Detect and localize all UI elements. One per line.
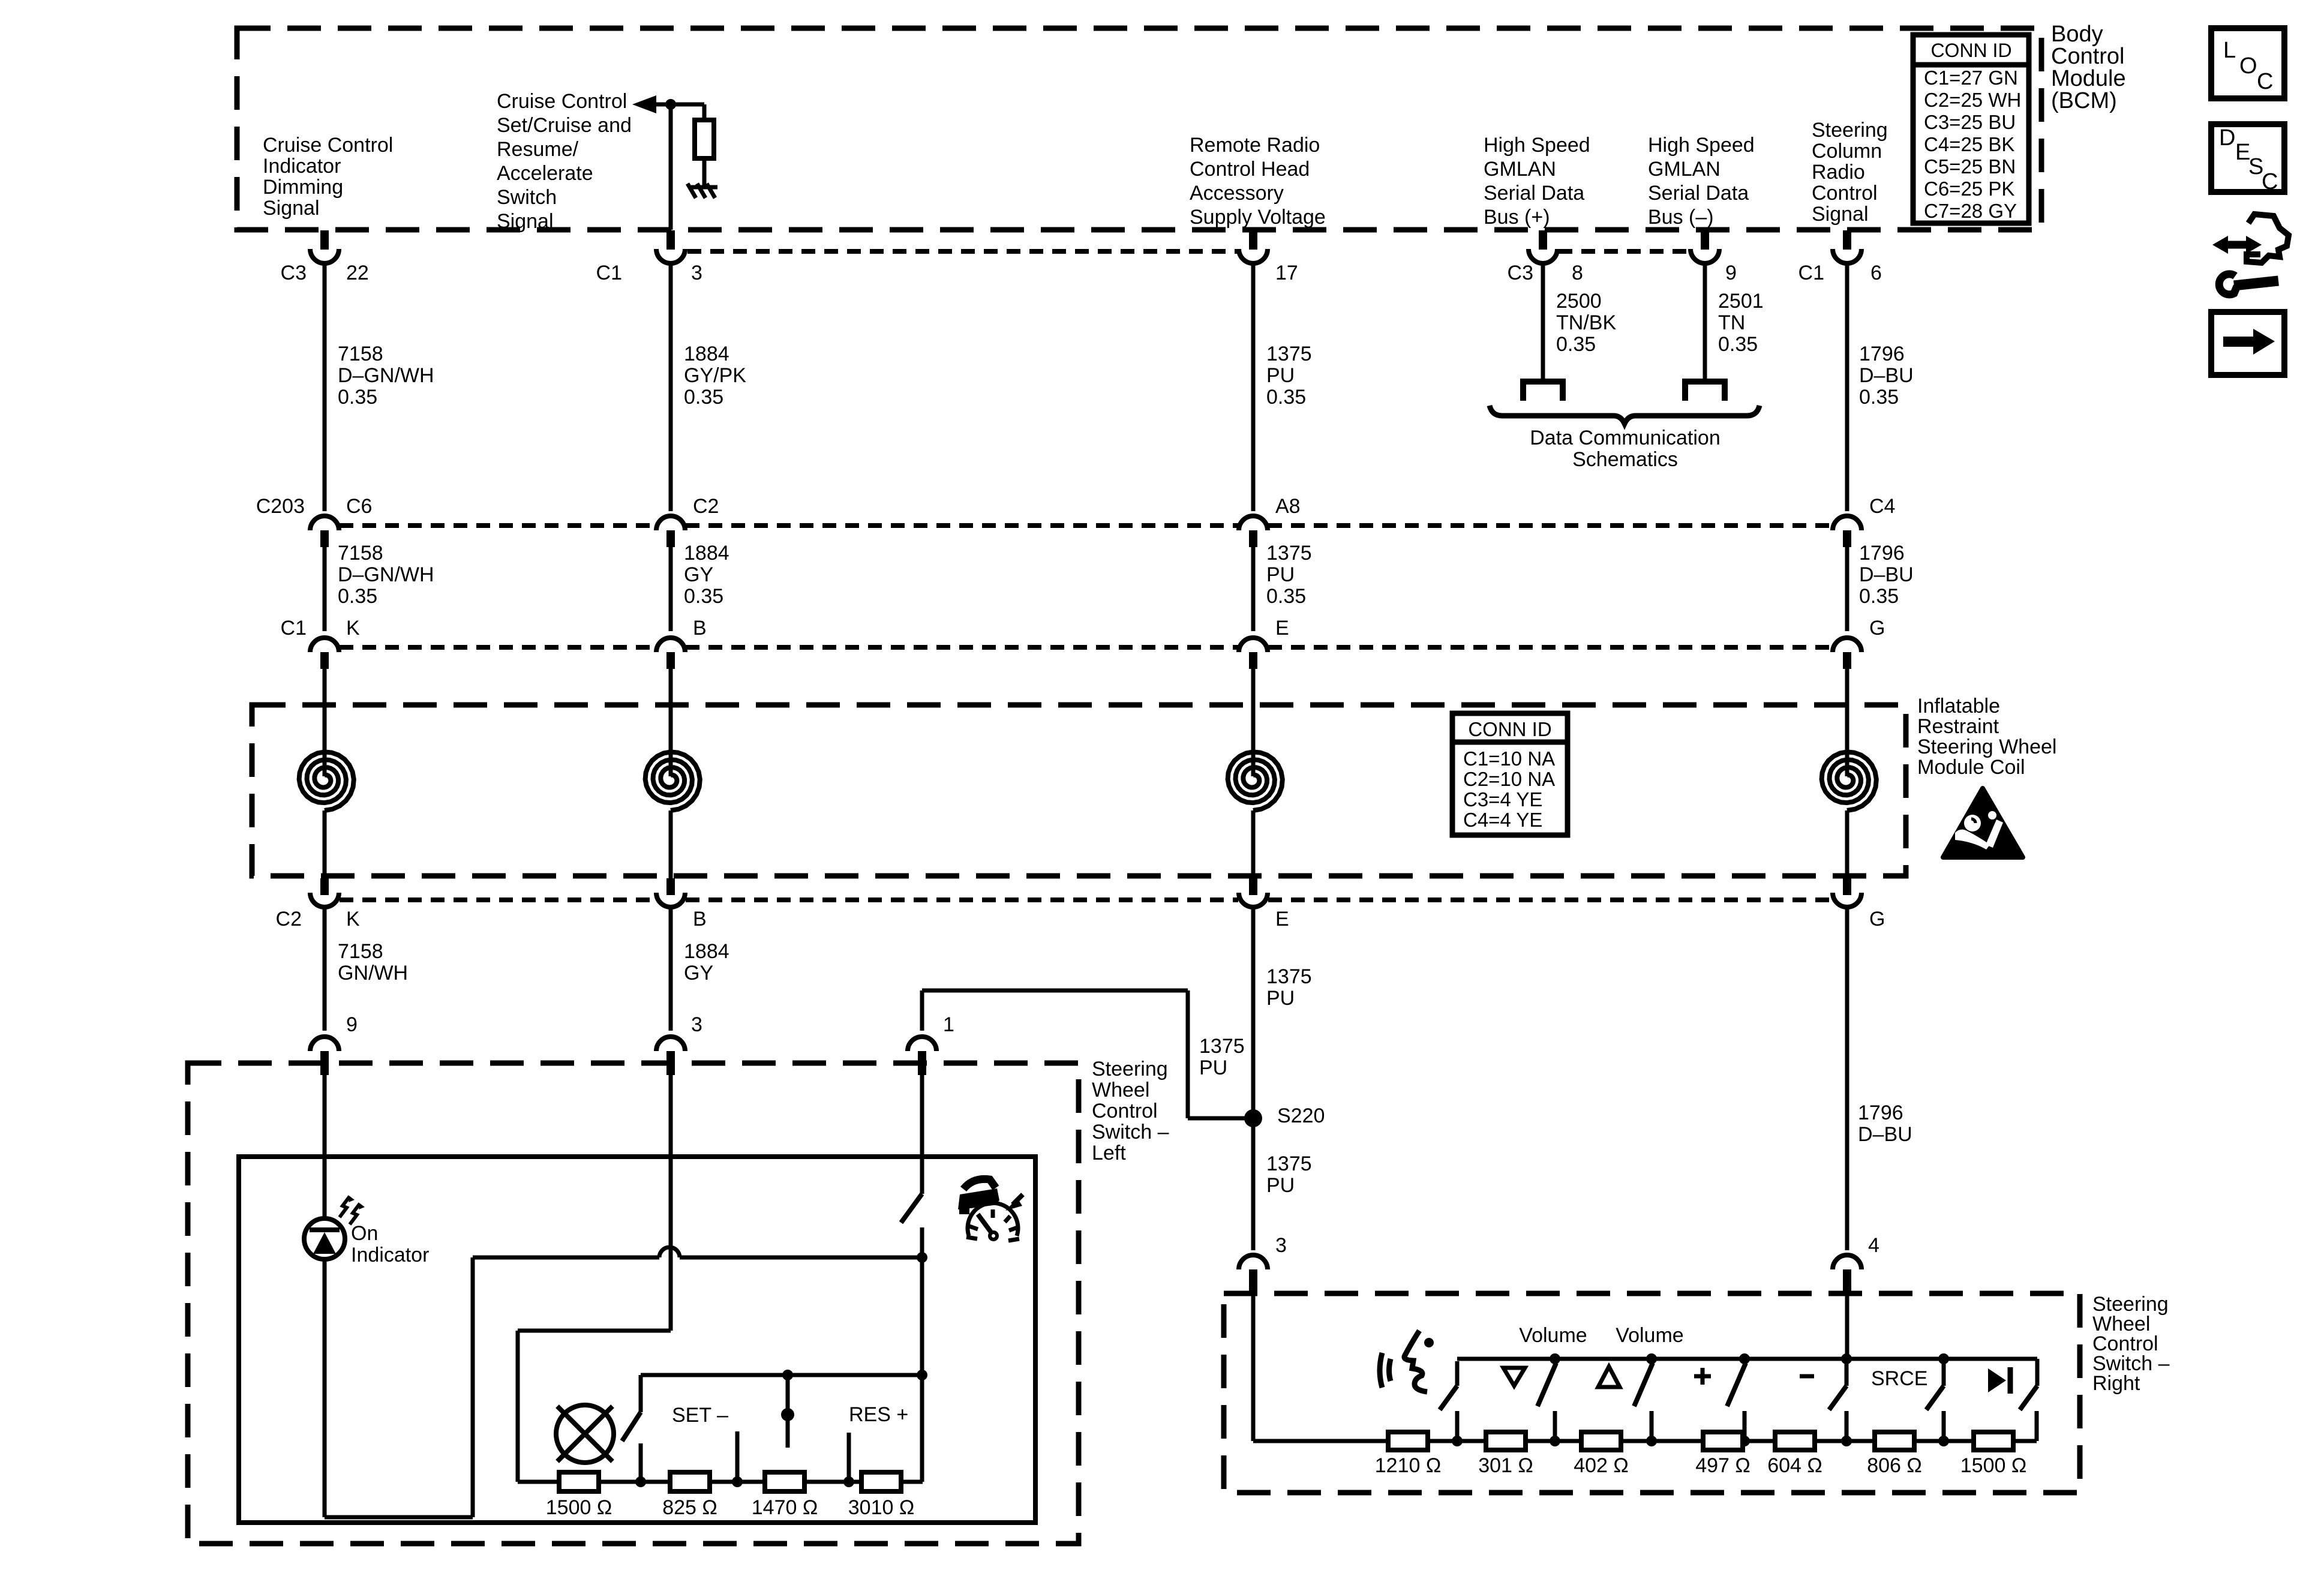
- svg-text:GMLAN: GMLAN: [1484, 158, 1556, 181]
- resistor 1500 ohm: [1974, 1432, 2013, 1450]
- wires row C -> coil box: [323, 669, 327, 751]
- wire W6 segment 1: [1845, 265, 1849, 511]
- svg-text:Accessory: Accessory: [1190, 182, 1284, 205]
- connector row D at x=2089: [1249, 878, 1257, 895]
- svg-text:D–BU: D–BU: [1859, 563, 1914, 586]
- svg-text:Cruise Control: Cruise Control: [263, 134, 393, 157]
- svg-text:D–GN/WH: D–GN/WH: [338, 563, 434, 586]
- svg-text:PU: PU: [1266, 563, 1295, 586]
- svg-text:C4: C4: [1869, 495, 1895, 518]
- svg-text:B: B: [693, 617, 707, 640]
- svg-text:Control Head: Control Head: [1190, 158, 1310, 181]
- svg-text:Signal: Signal: [263, 197, 320, 220]
- long horizontal with hop over W2: [473, 1256, 659, 1260]
- LED arrows: [340, 1196, 350, 1217]
- svg-text:Schematics: Schematics: [1572, 448, 1678, 471]
- svg-text:1470 Ω: 1470 Ω: [752, 1496, 818, 1519]
- svg-text:Switch –: Switch –: [1092, 1121, 1169, 1143]
- Steering Wheel Control Switch - Left dashed box: [188, 1063, 1079, 1544]
- svg-text:0.35: 0.35: [684, 585, 723, 608]
- icon DESC: [2211, 124, 2284, 192]
- svg-text:B: B: [693, 908, 707, 930]
- resistor 3010 ohm: [861, 1472, 901, 1491]
- svg-text:GY/PK: GY/PK: [684, 364, 746, 387]
- svg-text:Control: Control: [2051, 44, 2125, 69]
- connector row D at x=541: [320, 878, 329, 895]
- svg-text:GMLAN: GMLAN: [1648, 158, 1721, 181]
- coil spiral at x=1118: [645, 752, 700, 810]
- connector pin (BCM) at x=2842 (9): [1701, 230, 1709, 250]
- in-line connector row C at x=2089: [1239, 638, 1268, 652]
- svg-text:C2: C2: [276, 908, 302, 930]
- in-line connector C203 at x=1118: [656, 516, 685, 530]
- svg-text:K: K: [346, 908, 360, 930]
- svg-text:1884: 1884: [684, 940, 729, 963]
- svg-text:Indicator: Indicator: [351, 1244, 429, 1266]
- svg-text:3: 3: [1275, 1234, 1287, 1257]
- resistor 825 ohm: [670, 1472, 710, 1491]
- svg-text:D–GN/WH: D–GN/WH: [338, 364, 434, 387]
- coil spiral at x=541: [299, 752, 354, 810]
- connector 9 (left switch): [310, 1037, 339, 1051]
- svg-text:1: 1: [943, 1013, 954, 1036]
- resistor 604 ohm: [1775, 1432, 1815, 1450]
- svg-text:GN/WH: GN/WH: [338, 962, 408, 984]
- svg-text:0.35: 0.35: [1266, 386, 1306, 409]
- svg-text:0.35: 0.35: [1718, 333, 1758, 356]
- connector pin (BCM) at x=2572 (C3/8): [1539, 230, 1547, 250]
- svg-text:17: 17: [1275, 262, 1298, 284]
- svg-text:Control: Control: [1092, 1100, 1158, 1122]
- svg-text:Left: Left: [1092, 1142, 1126, 1164]
- icon vol-down triangle: [1503, 1368, 1525, 1386]
- svg-text:Serial Data: Serial Data: [1484, 182, 1584, 205]
- svg-text:C: C: [2257, 69, 2273, 94]
- svg-text:G: G: [1869, 617, 1885, 640]
- svg-text:S220: S220: [1277, 1104, 1325, 1127]
- switch SRCE: [1938, 1353, 1949, 1364]
- svg-text:High Speed: High Speed: [1648, 134, 1755, 157]
- svg-text:Resume/: Resume/: [497, 138, 579, 161]
- lamp (X circle): [556, 1405, 614, 1463]
- resistor (pull-up) in BCM: [695, 120, 714, 158]
- svg-text:Inflatable: Inflatable: [1917, 695, 2000, 718]
- icon LOC: [2211, 28, 2284, 98]
- icon next track (play/bar): [1988, 1368, 2006, 1392]
- svg-text:Indicator: Indicator: [263, 155, 341, 178]
- in-line connector C203 at x=3079: [1833, 516, 1861, 530]
- svg-text:C7=28 GY: C7=28 GY: [1924, 200, 2017, 222]
- wire W6 inside right box: [1845, 1296, 1849, 1359]
- svg-text:C3=25 BU: C3=25 BU: [1924, 111, 2016, 133]
- Inflatable Restraint Steering Wheel Module Coil dashed box: [252, 705, 1906, 876]
- svg-text:Module: Module: [2051, 66, 2126, 91]
- switch seek-: [1841, 1353, 1852, 1364]
- svg-text:PU: PU: [1266, 1174, 1295, 1197]
- cruise switch from connector 1: [920, 1068, 924, 1194]
- svg-text:1796: 1796: [1858, 1101, 1903, 1124]
- connector 1 (left switch): [908, 1037, 936, 1051]
- svg-text:825 Ω: 825 Ω: [662, 1496, 717, 1519]
- svg-text:1500 Ω: 1500 Ω: [546, 1496, 612, 1519]
- connector pin (BCM) at x=3079 (C1/6): [1843, 230, 1851, 250]
- in-line connector row C at x=541: [310, 638, 339, 652]
- svg-text:0.35: 0.35: [1859, 386, 1899, 409]
- splice S220: [1244, 1109, 1262, 1127]
- svg-text:Module Coil: Module Coil: [1917, 756, 2025, 779]
- svg-text:Control: Control: [1812, 182, 1878, 205]
- svg-text:PU: PU: [1266, 987, 1295, 1010]
- svg-text:Data Communication: Data Communication: [1530, 427, 1720, 449]
- svg-text:Volume: Volume: [1519, 1324, 1587, 1347]
- svg-text:3: 3: [691, 1013, 702, 1036]
- RES contact stubs: [735, 1431, 740, 1482]
- svg-text:PU: PU: [1199, 1056, 1227, 1079]
- svg-text:Right: Right: [2092, 1372, 2140, 1395]
- svg-text:SET –: SET –: [672, 1404, 728, 1427]
- svg-text:0.35: 0.35: [1266, 585, 1306, 608]
- svg-text:1884: 1884: [684, 542, 729, 565]
- switch vol-up: [1646, 1353, 1657, 1364]
- switch vol-down: [1550, 1353, 1560, 1364]
- wire W3 inside right box: [1251, 1296, 1256, 1441]
- svg-text:1500 Ω: 1500 Ω: [1960, 1454, 2027, 1477]
- svg-text:Signal: Signal: [497, 210, 554, 233]
- right common bus: [1457, 1357, 2037, 1361]
- svg-text:8: 8: [1572, 262, 1583, 284]
- wire W1 inside left box: [323, 1068, 327, 1219]
- svg-text:604 Ω: 604 Ω: [1767, 1454, 1822, 1477]
- icon plus: [1694, 1374, 1711, 1379]
- wire W3 S220 to connector 3: [1251, 1118, 1256, 1250]
- switch seek+: [1739, 1353, 1750, 1364]
- wire W3 to S220: [1251, 909, 1256, 1118]
- right resistor bus: [1253, 1439, 2037, 1443]
- svg-text:G: G: [1869, 908, 1885, 930]
- resistor 301 ohm: [1486, 1432, 1526, 1450]
- svg-text:1210 Ω: 1210 Ω: [1375, 1454, 1442, 1477]
- svg-text:7158: 7158: [338, 542, 383, 565]
- svg-text:E: E: [1275, 908, 1289, 930]
- resistor 806 ohm: [1875, 1432, 1914, 1450]
- svg-text:D–BU: D–BU: [1858, 1123, 1912, 1146]
- Body Control Module (BCM) dashed box: [237, 28, 2041, 230]
- svg-text:1375: 1375: [1266, 343, 1312, 365]
- svg-text:O: O: [2239, 53, 2257, 79]
- wire W5 (GMLAN-): [1703, 265, 1707, 380]
- svg-text:0.35: 0.35: [684, 386, 723, 409]
- svg-text:E: E: [1275, 617, 1289, 640]
- svg-text:Volume: Volume: [1616, 1324, 1683, 1347]
- svg-text:0.35: 0.35: [338, 585, 377, 608]
- brace: Data Communication Schematics: [1490, 406, 1759, 424]
- wire W1 segment 1: [323, 265, 327, 511]
- svg-text:Wheel: Wheel: [1092, 1079, 1149, 1101]
- SET/RES common bus: [641, 1373, 922, 1377]
- svg-text:Steering Wheel: Steering Wheel: [1917, 736, 2056, 758]
- svg-text:4: 4: [1868, 1234, 1879, 1257]
- svg-text:Signal: Signal: [1812, 203, 1869, 226]
- wire W1 to left switch: [323, 909, 327, 1031]
- svg-text:1375: 1375: [1199, 1035, 1245, 1058]
- coil CONN ID table: [1452, 713, 1568, 835]
- BCM CONN ID table: [1913, 35, 2029, 223]
- switch voice: [1455, 1361, 1460, 1386]
- left switch inner box: [239, 1157, 1035, 1523]
- svg-text:497 Ω: 497 Ω: [1695, 1454, 1750, 1477]
- coil spiral at x=2089: [1228, 752, 1283, 810]
- svg-text:C4=4 YE: C4=4 YE: [1463, 809, 1542, 831]
- svg-text:CONN ID: CONN ID: [1468, 718, 1551, 740]
- wire W2 to left switch: [669, 909, 673, 1031]
- svg-text:GY: GY: [684, 962, 713, 984]
- wire W2 inside left box: [669, 1068, 673, 1331]
- ground symbol in BCM: [691, 185, 717, 190]
- wires row B->C: [323, 547, 327, 631]
- svg-text:C5=25 BN: C5=25 BN: [1924, 155, 2016, 178]
- svg-text:C3: C3: [1508, 262, 1533, 284]
- resistor 1210 ohm: [1388, 1432, 1428, 1450]
- svg-text:0.35: 0.35: [338, 386, 377, 409]
- svg-text:301 Ω: 301 Ω: [1478, 1454, 1533, 1477]
- connector row A dotted harness lines: [687, 249, 1238, 254]
- connector pin (BCM) at x=541 (C3/22): [320, 230, 329, 250]
- switch next-track (diode): [2035, 1359, 2040, 1386]
- connector row D at x=1118: [666, 878, 675, 895]
- cruise control car icon: [963, 1179, 996, 1189]
- connector 3 (right switch): [1239, 1255, 1268, 1269]
- resistor 402 ohm: [1581, 1432, 1621, 1450]
- middle leg: [786, 1375, 790, 1448]
- icon minus: [1800, 1374, 1814, 1379]
- svg-text:C1=27 GN: C1=27 GN: [1924, 67, 2018, 89]
- svg-text:6: 6: [1870, 262, 1882, 284]
- svg-text:PU: PU: [1266, 364, 1295, 387]
- svg-text:2500: 2500: [1556, 290, 1602, 313]
- svg-text:C1: C1: [596, 262, 622, 284]
- svg-text:7158: 7158: [338, 940, 383, 963]
- svg-text:3: 3: [691, 262, 702, 284]
- svg-text:Steering: Steering: [1812, 119, 1888, 142]
- svg-text:22: 22: [346, 262, 369, 284]
- svg-text:7158: 7158: [338, 343, 383, 365]
- BCM internal: Set/Cruise switch signal arrow, resistor, ground: [632, 95, 656, 113]
- svg-text:D–BU: D–BU: [1859, 364, 1914, 387]
- svg-text:1796: 1796: [1859, 542, 1905, 565]
- connector pin (BCM) at x=2089 (17): [1249, 230, 1257, 250]
- svg-text:3010 Ω: 3010 Ω: [848, 1496, 915, 1519]
- svg-text:Supply Voltage: Supply Voltage: [1190, 206, 1326, 229]
- svg-text:2501: 2501: [1718, 290, 1764, 313]
- icon car repair (arrow + car + wrench): [2223, 241, 2251, 249]
- svg-text:Accelerate: Accelerate: [497, 162, 593, 185]
- svg-text:C1: C1: [1798, 262, 1824, 284]
- connector pin (BCM) at x=1118 (C1/3): [666, 230, 675, 250]
- svg-text:0.35: 0.35: [1859, 585, 1899, 608]
- svg-text:Restraint: Restraint: [1917, 715, 1999, 738]
- svg-text:1884: 1884: [684, 343, 729, 365]
- svg-text:1375: 1375: [1266, 965, 1312, 988]
- svg-text:C3: C3: [281, 262, 307, 284]
- On Indicator LED: [304, 1218, 345, 1259]
- connector 4 (right switch): [1833, 1255, 1861, 1269]
- svg-text:C3=4 YE: C3=4 YE: [1463, 788, 1542, 810]
- left resistor bus: [518, 1480, 923, 1484]
- branch wire to connector 1 of left switch: [922, 989, 1188, 993]
- svg-text:C6=25 PK: C6=25 PK: [1924, 178, 2014, 200]
- in-line connector row C at x=3079: [1833, 638, 1861, 652]
- airbag warning triangle: [1943, 788, 2023, 857]
- svg-text:Radio: Radio: [1812, 161, 1865, 184]
- svg-text:(BCM): (BCM): [2051, 88, 2117, 113]
- svg-text:TN/BK: TN/BK: [1556, 311, 1616, 334]
- svg-text:C: C: [2262, 169, 2278, 194]
- svg-text:High Speed: High Speed: [1484, 134, 1590, 157]
- wire W3 segment 1: [1251, 265, 1256, 511]
- svg-text:C6: C6: [346, 495, 372, 518]
- in-line connector C203 at x=2089: [1239, 516, 1268, 530]
- connector row C dotted lines: [340, 645, 656, 650]
- svg-text:1796: 1796: [1859, 343, 1905, 365]
- svg-text:806 Ω: 806 Ω: [1867, 1454, 1922, 1477]
- svg-text:Set/Cruise and: Set/Cruise and: [497, 114, 632, 137]
- icon vol-up triangle: [1598, 1367, 1620, 1387]
- svg-text:C4=25 BK: C4=25 BK: [1924, 133, 2014, 155]
- connector row D at x=3079: [1843, 878, 1851, 895]
- svg-text:L: L: [2223, 38, 2236, 63]
- in-line connector row C at x=1118: [656, 638, 685, 652]
- svg-text:CONN ID: CONN ID: [1930, 40, 2011, 61]
- svg-text:Switch: Switch: [497, 186, 557, 209]
- wire W2 segment 1: [669, 265, 673, 511]
- svg-text:SRCE: SRCE: [1871, 1367, 1927, 1390]
- svg-text:On: On: [351, 1222, 378, 1245]
- svg-text:Steering: Steering: [1092, 1058, 1168, 1080]
- svg-text:1375: 1375: [1266, 1152, 1312, 1175]
- svg-text:C2=25 WH: C2=25 WH: [1924, 89, 2021, 111]
- svg-text:Column: Column: [1812, 140, 1882, 163]
- svg-text:Remote Radio: Remote Radio: [1190, 134, 1320, 157]
- terminator for GMLAN+ wire: [1523, 382, 1563, 401]
- voice icon: [1380, 1353, 1382, 1388]
- connector row D dotted lines: [340, 897, 656, 902]
- svg-text:Serial Data: Serial Data: [1648, 182, 1749, 205]
- svg-text:GY: GY: [684, 563, 713, 586]
- icon forward arrow: [2211, 312, 2284, 375]
- SET switch: [639, 1375, 643, 1412]
- wire W6 to right switch: [1845, 909, 1849, 1250]
- svg-text:A8: A8: [1275, 495, 1301, 518]
- wire W4 (GMLAN+): [1541, 265, 1545, 380]
- node: junction dot on wire 2: [665, 99, 676, 110]
- Steering Wheel Control Switch - Right dashed box: [1224, 1293, 2080, 1493]
- svg-text:0.35: 0.35: [1556, 333, 1596, 356]
- wire W1 below LED and L-branch: [323, 1259, 327, 1517]
- svg-text:Dimming: Dimming: [263, 176, 343, 199]
- svg-text:C2=10 NA: C2=10 NA: [1463, 768, 1555, 790]
- svg-text:Bus (+): Bus (+): [1484, 206, 1550, 229]
- svg-text:9: 9: [1725, 262, 1737, 284]
- svg-text:402 Ω: 402 Ω: [1574, 1454, 1629, 1477]
- svg-text:Bus (–): Bus (–): [1648, 206, 1714, 229]
- in-line connector C203 at x=541: [310, 516, 339, 530]
- svg-text:Body: Body: [2051, 22, 2103, 47]
- connector 3 (left switch): [656, 1037, 685, 1051]
- svg-text:C1: C1: [281, 617, 307, 640]
- svg-text:C1=10 NA: C1=10 NA: [1463, 748, 1555, 770]
- resistor 497 ohm: [1703, 1432, 1743, 1450]
- svg-text:9: 9: [346, 1013, 358, 1036]
- resistor 1470 ohm: [765, 1472, 804, 1491]
- connector row B dotted lines: [340, 523, 656, 528]
- svg-text:1375: 1375: [1266, 542, 1312, 565]
- coil spiral at x=3079: [1822, 752, 1876, 810]
- resistor 1500 ohm: [559, 1472, 599, 1491]
- svg-text:TN: TN: [1718, 311, 1745, 334]
- terminator for GMLAN- wire: [1685, 382, 1725, 401]
- wire: W2 inside BCM: [669, 104, 673, 230]
- svg-text:K: K: [346, 617, 360, 640]
- svg-text:D: D: [2219, 125, 2235, 151]
- svg-text:Cruise Control: Cruise Control: [497, 90, 627, 113]
- svg-text:RES +: RES +: [849, 1403, 908, 1426]
- svg-text:C2: C2: [693, 495, 719, 518]
- svg-text:C203: C203: [256, 495, 305, 518]
